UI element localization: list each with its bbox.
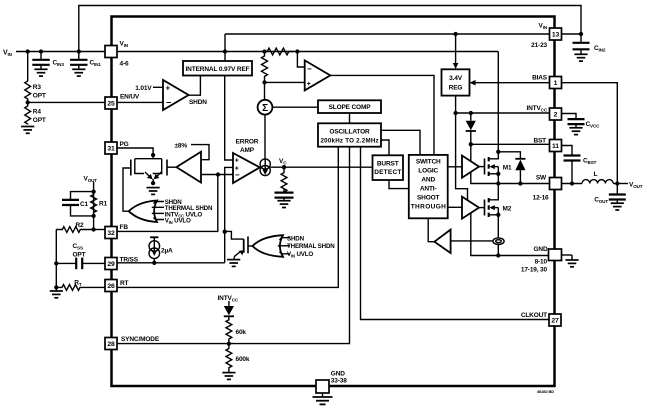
wire REF feed vertical x225 xyxy=(224,34,226,61)
wire VC line xyxy=(270,166,372,168)
node M1 driver supply dot xyxy=(469,142,473,146)
wire R2 left vertical xyxy=(55,230,57,288)
wire A1 output to switch logic xyxy=(330,75,434,154)
pin GND 33-38 bottom xyxy=(316,380,329,393)
pin 2 INTVCC xyxy=(550,108,562,120)
wire EN comparator output to REF box xyxy=(189,76,201,96)
wire VIN input rail y51.5 xyxy=(16,51,498,53)
pin 11 BST xyxy=(550,140,562,152)
capacitor CBST xyxy=(562,146,573,155)
node R3/R4 divider dot xyxy=(26,100,30,104)
wire A2 output to switch logic xyxy=(428,218,434,241)
svg-text:−: − xyxy=(307,65,312,74)
node sense left dot xyxy=(262,49,266,53)
wire BIAS ext to VOUT node xyxy=(562,83,618,184)
sensor current sense element xyxy=(493,238,504,245)
wire internal VIN top rail y34 xyxy=(225,33,550,35)
wire M1 drain to VIN xyxy=(496,150,500,154)
svg-text:3.4V: 3.4V xyxy=(449,75,463,82)
svg-text:32: 32 xyxy=(107,230,115,237)
wire TR/SS row xyxy=(117,262,225,264)
capacitor C-comp xyxy=(283,189,285,192)
svg-text:M1: M1 xyxy=(503,164,512,171)
svg-text:EN/UV: EN/UV xyxy=(120,94,140,101)
wire GND ext xyxy=(562,254,573,256)
svg-text:8-10: 8-10 xyxy=(535,259,548,266)
wire REF output to error amp + input xyxy=(225,76,233,161)
svg-text:60k: 60k xyxy=(236,329,247,336)
current source CS error amp output xyxy=(260,159,270,176)
capacitor CIN2 xyxy=(573,42,590,44)
svg-text:REG: REG xyxy=(449,85,463,92)
wire VIN rail to 3.4V REG with arrow xyxy=(455,34,457,65)
wire BST to M1 driver top xyxy=(470,144,472,161)
pin 26 RT xyxy=(105,280,117,292)
svg-text:SHDN: SHDN xyxy=(287,235,305,242)
svg-text:±8%: ±8% xyxy=(175,143,188,150)
svg-text:BURST: BURST xyxy=(377,160,399,167)
wire M1 driver return to SW xyxy=(471,172,550,183)
current source I-SS 2uA xyxy=(149,237,160,262)
svg-text:OSCILLATOR: OSCILLATOR xyxy=(329,129,370,136)
svg-text:SWITCH: SWITCH xyxy=(416,159,441,166)
node VOUT ext dot xyxy=(615,181,619,185)
pin 1 BIAS xyxy=(550,77,562,89)
resistor 60k xyxy=(226,316,232,343)
wire SYNC row xyxy=(117,147,350,344)
node FB ext dot xyxy=(91,227,95,231)
pin SW 12-16 xyxy=(550,178,562,190)
node SS junction dot xyxy=(223,230,227,234)
node VC dot xyxy=(282,165,286,169)
svg-text:SHOOT: SHOOT xyxy=(417,195,440,202)
svg-text:AMP: AMP xyxy=(240,147,255,154)
transistor M2 xyxy=(479,184,498,239)
svg-text:−: − xyxy=(166,98,171,108)
comparator U-PG +/-8% xyxy=(176,152,201,183)
node 2uA tap dot xyxy=(152,261,156,265)
wire +/-8% upper input xyxy=(191,145,209,160)
wire REG output INTVCC rail xyxy=(456,96,468,201)
node sense right dot xyxy=(295,49,299,53)
svg-text:SLOPE COMP: SLOPE COMP xyxy=(329,104,372,111)
pin VIN 4-6 xyxy=(105,46,117,58)
svg-text:29: 29 xyxy=(107,261,115,268)
svg-text:PG: PG xyxy=(120,141,129,148)
box U-REF INTERNAL 0.97V REF xyxy=(183,61,252,76)
box U-SL SWITCH LOGIC AND ANTI-SHOOT THROUGH xyxy=(409,155,448,218)
wire EN/UV pin to comparator xyxy=(117,101,163,103)
node SW dots xyxy=(496,181,500,185)
resistor RT xyxy=(56,285,105,291)
wire sigma to slope comp xyxy=(272,106,318,108)
svg-text:CLKOUT: CLKOUT xyxy=(521,312,547,319)
capacitor CIN1 xyxy=(78,52,80,60)
svg-text:600k: 600k xyxy=(236,356,250,363)
svg-text:21-23: 21-23 xyxy=(531,42,547,49)
op-amp A1 current sense xyxy=(305,60,331,90)
svg-text:AND: AND xyxy=(421,177,435,184)
op-amp A2 valley sense xyxy=(434,230,450,253)
svg-text:DETECT: DETECT xyxy=(374,169,401,176)
svg-text:200kHz TO 2.2MHz: 200kHz TO 2.2MHz xyxy=(321,138,379,145)
resistor R-slope vertical xyxy=(262,52,268,83)
svg-text:26: 26 xyxy=(107,283,115,290)
svg-text:OPT: OPT xyxy=(33,117,46,124)
svg-text:2µA: 2µA xyxy=(161,248,173,255)
svg-text:1: 1 xyxy=(554,80,558,87)
wire M2 source to GND xyxy=(497,245,499,256)
ground below R4 xyxy=(21,127,34,134)
capacitor CIN3 xyxy=(40,52,42,60)
node junction dots on VIN input rail xyxy=(26,49,30,53)
svg-text:VIN UVLO: VIN UVLO xyxy=(287,251,313,258)
transistor pair PG window output stage xyxy=(131,159,167,183)
svg-text:+: + xyxy=(166,84,171,93)
wire SS node to discharge FET drain xyxy=(225,231,244,239)
svg-text:VIN UVLO: VIN UVLO xyxy=(165,218,191,225)
node boost diode tap dot xyxy=(469,111,473,115)
svg-text:R2: R2 xyxy=(76,222,85,229)
resistor R-sense top horizontal xyxy=(265,48,293,55)
resistor R2 xyxy=(56,227,93,233)
box U-BURST BURST DETECT xyxy=(373,155,404,180)
buffer DRV1 high side driver xyxy=(462,156,479,178)
svg-text:R3: R3 xyxy=(33,84,42,91)
svg-text:SW: SW xyxy=(536,175,547,182)
svg-text:+: + xyxy=(235,157,239,164)
node slope tap dot xyxy=(262,80,266,84)
wire FB ext to pin xyxy=(94,229,105,231)
node PG source dot xyxy=(151,181,155,185)
svg-text:25: 25 xyxy=(107,101,115,108)
gate OR2 shutdown logic xyxy=(253,235,284,257)
pin 31 PG xyxy=(105,142,117,154)
svg-text:INTERNAL 0.97V REF: INTERNAL 0.97V REF xyxy=(186,66,250,73)
svg-text:12-16: 12-16 xyxy=(533,195,549,202)
wire switch logic to M1 driver xyxy=(448,166,462,168)
wire BIAS to REG with arrow xyxy=(475,82,550,84)
wire INTVCC to pin xyxy=(456,112,550,114)
node RT ground dot xyxy=(54,285,58,289)
svg-text:2: 2 xyxy=(554,112,558,119)
svg-text:17-19, 30: 17-19, 30 xyxy=(521,267,548,274)
svg-text:−: − xyxy=(235,171,240,180)
ground below Q-SS xyxy=(227,260,240,267)
wire SW ext xyxy=(562,183,583,185)
svg-text:OPT: OPT xyxy=(73,252,86,259)
wire slope tap to A1 plus xyxy=(265,81,305,83)
svg-text:LOGIC: LOGIC xyxy=(418,168,438,175)
wire sense right to A1 minus xyxy=(297,52,304,68)
wire FB node to +/-8% lower input xyxy=(201,174,233,176)
wire OR1 output to left gate xyxy=(123,168,131,211)
node CBST/SW dot xyxy=(570,181,574,185)
inductor L xyxy=(582,180,613,184)
svg-text:GND: GND xyxy=(331,371,345,378)
svg-text:31: 31 xyxy=(107,146,115,153)
pin 29 TR/SS xyxy=(105,258,117,270)
svg-text:ANTI-: ANTI- xyxy=(420,186,437,193)
svg-text:RT: RT xyxy=(120,280,129,287)
capacitor CVCC xyxy=(562,114,577,119)
ground below comp network xyxy=(277,201,290,208)
wire slope tap down to sigma xyxy=(264,82,266,100)
wire PG pin to cross drain xyxy=(117,148,153,159)
svg-text:C1: C1 xyxy=(80,201,89,208)
wire BST rail xyxy=(471,143,550,145)
diode D-BST boost xyxy=(470,113,472,121)
svg-text:BST: BST xyxy=(533,138,546,145)
ground below RT node xyxy=(55,287,57,290)
capacitor CSS (OPT) xyxy=(56,262,75,264)
buffer DRV2 low side driver xyxy=(462,197,479,219)
node R1 bottom dot xyxy=(91,214,95,218)
node FB dot A xyxy=(216,172,220,176)
svg-text:R1: R1 xyxy=(99,201,108,208)
wire switch logic to M2 driver xyxy=(448,206,462,208)
svg-text:THROUGH: THROUGH xyxy=(411,204,446,211)
pin 27 CLKOUT xyxy=(549,314,561,326)
wire burst to switch logic xyxy=(389,180,409,189)
svg-text:R4: R4 xyxy=(33,109,42,116)
box U-REG 3.4V REG xyxy=(442,69,470,95)
wire oscillator to burst detect xyxy=(381,140,389,155)
resistor R-comp xyxy=(281,167,287,192)
wire VOUT stub to divider xyxy=(93,182,95,230)
wire outer top loop VIN to CIN2 xyxy=(79,6,581,52)
ground below 600k xyxy=(222,373,235,380)
svg-text:FB: FB xyxy=(120,224,129,231)
svg-text:BIAS: BIAS xyxy=(532,75,548,82)
svg-text:OPT: OPT xyxy=(33,93,46,100)
pin GND 8-10 17-19,30 xyxy=(549,249,562,261)
node sync divider dot xyxy=(227,341,231,345)
node REG feed dot xyxy=(453,32,457,36)
wire EN/UV input xyxy=(28,101,105,103)
node CSS tap dot xyxy=(54,261,58,265)
wire to VOUT label xyxy=(613,183,628,185)
svg-text:33-38: 33-38 xyxy=(331,378,347,385)
pin 28 SYNC/MODE xyxy=(105,338,117,350)
wire slope comp to oscillator xyxy=(349,113,351,123)
wire FB pin to node A xyxy=(117,175,218,232)
svg-text:GND: GND xyxy=(534,246,548,253)
pin 25 EN/UV xyxy=(105,97,117,109)
svg-text:1.01V: 1.01V xyxy=(135,85,152,92)
gate OR1 shutdown logic xyxy=(129,201,157,223)
wire A2 to sensor xyxy=(451,240,493,242)
wire CLKOUT vertical xyxy=(361,147,550,320)
wire right gate to comparator xyxy=(167,166,176,168)
wire RT row xyxy=(117,147,338,288)
svg-text:SHDN: SHDN xyxy=(189,99,207,106)
svg-text:ERROR: ERROR xyxy=(236,139,259,146)
svg-text:28: 28 xyxy=(107,341,115,348)
wire pin13 to CIN2 xyxy=(562,33,582,35)
IC outline border xyxy=(112,17,555,387)
svg-text:4-6: 4-6 xyxy=(120,61,129,68)
svg-text:Σ: Σ xyxy=(262,103,268,114)
pin 13 VIN 21-23 xyxy=(550,28,562,40)
svg-text:+: + xyxy=(307,81,311,88)
node dot VIN rail / REF feed xyxy=(223,49,227,53)
wire OR1 input stubs xyxy=(152,202,164,220)
node INTVCC dot xyxy=(453,111,457,115)
svg-text:27: 27 xyxy=(551,318,559,325)
summer SIGMA xyxy=(258,100,273,115)
transistor Q-SS discharge MOSFET xyxy=(234,236,252,258)
svg-text:THERMAL SHDN: THERMAL SHDN xyxy=(287,243,335,250)
svg-text:M2: M2 xyxy=(503,205,512,212)
resistor R4 (OPT) xyxy=(25,102,31,124)
box U-SLOPE SLOPE COMP xyxy=(318,100,381,113)
svg-text:11: 11 xyxy=(552,143,559,150)
wire M2 driver return to GND xyxy=(471,214,549,256)
svg-text:SYNC/MODE: SYNC/MODE xyxy=(121,336,160,343)
pin 32 FB xyxy=(105,227,117,239)
node PG drain dot xyxy=(151,153,155,157)
wire soft start to error amp xyxy=(225,167,233,262)
wire OR2 input stubs xyxy=(278,238,290,254)
diode D-sync xyxy=(228,301,230,306)
transistor M1 xyxy=(479,152,498,184)
ground below PG cross xyxy=(147,188,160,195)
capacitor C1 xyxy=(71,192,94,199)
wire sigma down to comparator node xyxy=(264,115,266,160)
comparator U-EN 1.01V xyxy=(163,80,189,110)
resistor R3 (OPT) xyxy=(25,52,31,103)
wire oscillator to switch logic clock xyxy=(381,130,420,155)
resistor R1 xyxy=(91,195,97,213)
capacitor COUT xyxy=(616,184,618,194)
svg-text:86452 BD: 86452 BD xyxy=(537,389,554,394)
diode D-M1 body xyxy=(498,152,520,159)
box U-OSC OSCILLATOR xyxy=(318,123,381,146)
svg-text:13: 13 xyxy=(552,32,560,39)
svg-text:L: L xyxy=(594,171,598,178)
resistor 600k xyxy=(226,344,232,373)
